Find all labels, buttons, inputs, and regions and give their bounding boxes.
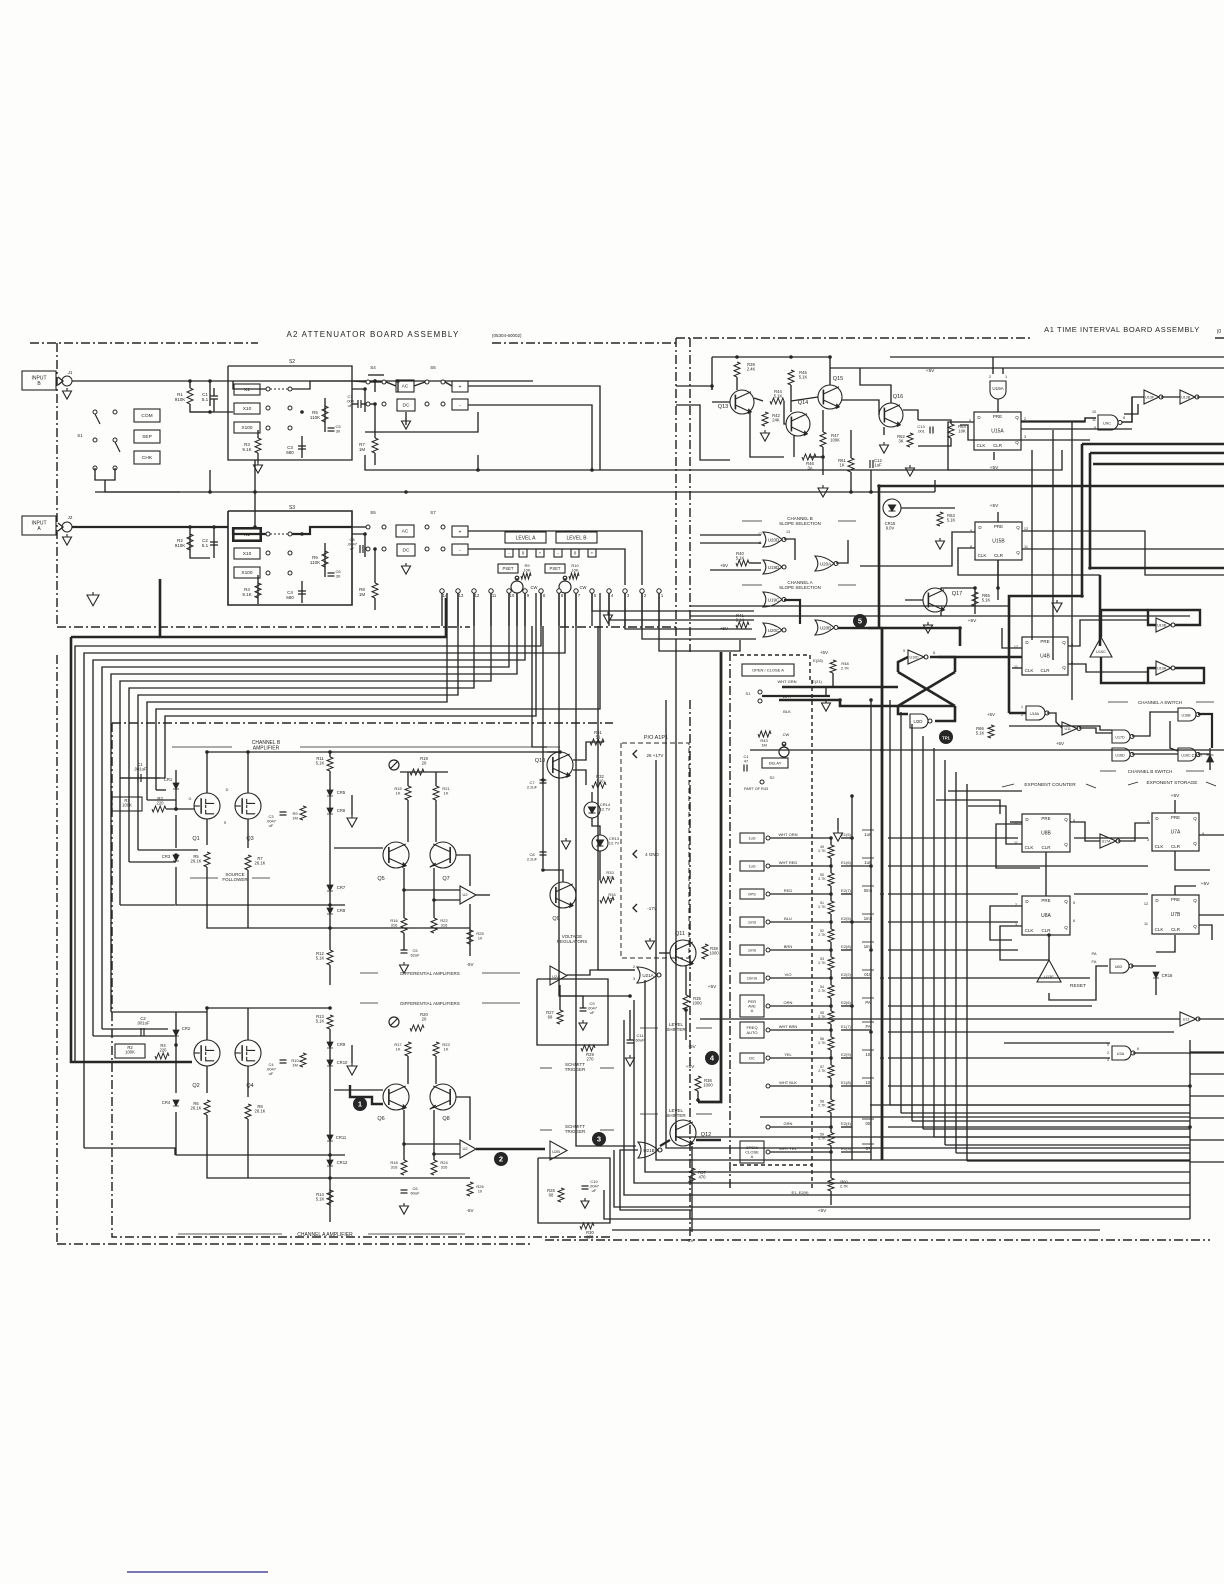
fan into amp e	[129, 861, 176, 863]
gate U3A	[1112, 1046, 1135, 1060]
transistor Q8	[430, 1084, 456, 1110]
switch contact row E1(8)	[766, 1084, 770, 1088]
U21B loop	[620, 1150, 692, 1210]
C11 stub	[629, 1010, 631, 1040]
U15B pre stub	[997, 512, 999, 522]
svg-text:8: 8	[1123, 416, 1125, 420]
resistor R22 316	[431, 918, 437, 933]
row wire E2(8)	[770, 949, 831, 951]
U19D input wire b	[710, 569, 761, 571]
resistor R5	[322, 406, 328, 422]
diode string wire2	[329, 771, 331, 790]
row wire E2(7)	[770, 893, 831, 895]
svg-text:10mS: 10mS	[747, 975, 758, 980]
Q15 wires	[829, 357, 831, 385]
row signal PA right	[888, 1005, 1092, 1007]
svg-text:R16316: R16316	[390, 918, 398, 928]
svg-text:U13: U13	[1183, 1018, 1190, 1022]
inverter U11	[1062, 722, 1081, 735]
U10C stub	[1101, 610, 1148, 637]
junction dot 8	[404, 490, 408, 494]
A1 vertical bus elbow 6	[956, 1152, 1190, 1154]
long wire TP1 row	[750, 749, 1224, 751]
row wire to bus E1(7)	[841, 1029, 871, 1031]
resistor R62 3K	[907, 433, 913, 447]
connector label INPUT A	[22, 516, 56, 535]
diode CR4	[173, 1100, 179, 1106]
svg-text:U7A: U7A	[1171, 830, 1181, 836]
Q4 drain up	[247, 1008, 249, 1040]
right edge stub 4	[1190, 1139, 1224, 1141]
svg-text:+5V: +5V	[990, 503, 999, 509]
ladder wire 7	[830, 1030, 832, 1037]
S3 right contact y573	[288, 571, 292, 575]
svg-text:PRE: PRE	[994, 524, 1003, 529]
overline for PA	[862, 997, 874, 999]
svg-text:R30270: R30270	[586, 1230, 594, 1240]
junction dot 19	[328, 903, 332, 907]
CR1 CR3 vertical	[175, 815, 177, 848]
level shifter2 rule2	[696, 1113, 712, 1115]
right edge stub 2	[1190, 1095, 1224, 1097]
row wire to bus E2(4)	[841, 1126, 852, 1128]
svg-text:WHT BLK: WHT BLK	[779, 1080, 797, 1085]
svg-text:1uS: 1uS	[748, 863, 755, 868]
bottom right vertical bus	[1189, 1040, 1191, 1219]
resistor R3	[255, 438, 261, 453]
wire terminal 2 to slope	[642, 593, 756, 639]
S2 left contact y389	[266, 387, 270, 391]
svg-text:R71M: R71M	[359, 442, 366, 452]
opamp U2 channel B	[460, 886, 476, 904]
S2 left contact y408	[266, 406, 270, 410]
svg-text:U8B: U8B	[1041, 831, 1051, 837]
gate U20C	[763, 623, 786, 637]
thin route A1 mid a	[690, 605, 1009, 607]
svg-text:1mS: 1mS	[748, 919, 757, 924]
svg-text:CR9: CR9	[337, 1042, 346, 1047]
svg-text:Q: Q	[1062, 640, 1066, 645]
junction dot 7	[253, 490, 257, 494]
S6 out	[445, 382, 452, 386]
drop wire a	[997, 560, 999, 588]
row signal 0S right	[888, 1126, 1190, 1128]
svg-text:+: +	[459, 529, 462, 535]
U10B loop thick	[1148, 610, 1200, 625]
Q8 emitter down	[433, 1110, 435, 1160]
resistor R36 1000	[695, 1076, 701, 1091]
svg-text:DC: DC	[749, 1055, 755, 1060]
wire S1 branch down	[209, 381, 211, 406]
svg-text:S: S	[224, 821, 227, 825]
U4B out loop b	[1068, 664, 1148, 672]
resistor R32 510	[592, 782, 606, 788]
resistor R37 470	[689, 1168, 695, 1183]
U16D out wire	[1132, 753, 1178, 755]
fan into amp j	[84, 1148, 175, 1155]
S3 left contact y534	[266, 532, 270, 536]
S6 contact bot x427	[425, 402, 429, 406]
Q13 base feed	[712, 401, 730, 403]
resistor R63 5.1K	[937, 512, 943, 526]
thick route U15B D	[1022, 531, 1224, 575]
U15B loop wire b	[958, 548, 1100, 575]
CR16 down	[1155, 978, 1157, 995]
wire R35 bottom	[685, 1010, 687, 1040]
wire J2 to S3 thick	[72, 526, 228, 528]
svg-text:SOURCEFOLLOWER: SOURCEFOLLOWER	[222, 872, 248, 882]
U16C out wire	[1198, 748, 1210, 754]
svg-text:5: 5	[858, 617, 862, 626]
gate U20D	[763, 532, 786, 547]
resistor R19	[410, 769, 424, 775]
diode CR5	[327, 790, 333, 796]
S3 right contact y553	[288, 551, 292, 555]
svg-text:WHT GRN: WHT GRN	[777, 679, 796, 684]
svg-text:DELAY: DELAY	[769, 760, 782, 765]
ground left of fan	[87, 592, 99, 606]
U15B clr stub	[997, 560, 999, 600]
range box X100	[234, 422, 260, 433]
row junction E2(4)	[829, 1125, 833, 1129]
switch contact row E2(2)	[766, 976, 770, 980]
wire terminal 4 down stub	[608, 593, 610, 626]
S3 left contact y573	[266, 571, 270, 575]
schmitt rule	[540, 1067, 552, 1069]
wire terminal 3 down stub	[624, 593, 626, 626]
svg-text:S1: S1	[77, 433, 83, 438]
switch contact row E2(7)	[766, 892, 770, 896]
drop wire b	[1031, 450, 1033, 640]
flip-flop U8A	[1022, 896, 1070, 935]
numbered ball 2	[494, 1152, 508, 1166]
svg-text:R81M: R81M	[359, 587, 366, 597]
footer blue rule	[127, 1571, 268, 1573]
svg-text:+: +	[539, 551, 542, 556]
junction dot 24	[174, 853, 178, 857]
bottom long wire extra b	[870, 1104, 1190, 1106]
svg-text:CR5: CR5	[337, 790, 346, 795]
Q3 drain up	[247, 752, 249, 793]
inverter U13A2	[1180, 1012, 1200, 1026]
C7 left lead	[352, 403, 358, 405]
overline for 1uS	[862, 829, 874, 831]
numbered ball 1	[353, 1097, 367, 1111]
S4 contact bot x368	[366, 402, 370, 406]
svg-text:WHT RED: WHT RED	[779, 860, 798, 865]
gate U20B	[815, 620, 838, 635]
row signal 0mS right	[888, 893, 1018, 895]
mode select box 10mS row	[740, 973, 764, 983]
column bus b	[870, 700, 872, 1160]
A1 top rail2	[711, 357, 713, 390]
svg-text:U18A: U18A	[1030, 712, 1040, 716]
svg-text:E2(9): E2(9)	[841, 1052, 851, 1057]
wire C1 branch	[397, 381, 399, 392]
resistor R42 24K	[762, 412, 768, 426]
resistor R7 26.1K	[245, 855, 251, 870]
switch contact row E2(6)	[766, 1004, 770, 1008]
Q7 base wire	[456, 855, 470, 886]
resistor R26 10	[467, 1182, 473, 1196]
Q13 collector to R44	[754, 398, 763, 401]
channel B switch rule2	[1186, 770, 1204, 772]
junction dot 51	[1080, 594, 1084, 598]
U19A to U15A	[997, 399, 999, 412]
svg-text:U9C: U9C	[1103, 420, 1111, 425]
channel B switch rule	[1100, 770, 1116, 772]
col wires top	[762, 695, 830, 697]
A1 vertical bus elbow 3	[923, 1128, 1190, 1130]
terminal 3 of attenuator	[623, 589, 627, 593]
row wire E2(6)	[770, 1005, 831, 1007]
coupling box AC	[396, 380, 414, 392]
svg-text:11: 11	[492, 593, 497, 598]
capacitor C1 col	[744, 765, 747, 772]
transistor Q11	[670, 940, 696, 966]
svg-text:YEL: YEL	[784, 1052, 792, 1057]
svg-text:+5V: +5V	[818, 1208, 827, 1214]
gate U19D	[763, 560, 786, 574]
svg-text:CR4: CR4	[162, 1100, 171, 1105]
svg-text:E1, E2(9): E1, E2(9)	[792, 1190, 810, 1195]
svg-text:(0: (0	[1217, 329, 1222, 335]
resistor R55 2.7K	[828, 1011, 834, 1024]
ground below C5	[400, 962, 409, 973]
J2 arrow	[58, 523, 63, 531]
U9C out long	[1124, 404, 1138, 414]
svg-text:BLU: BLU	[784, 916, 792, 921]
diode string wire5	[329, 891, 331, 908]
S3 left contact y553	[266, 551, 270, 555]
svg-text:3: 3	[1024, 435, 1026, 439]
row junction E1(3)	[829, 1150, 833, 1154]
U13A out wire	[1198, 1018, 1224, 1020]
svg-text:6: 6	[1073, 919, 1075, 923]
resistor R18 316	[401, 1160, 407, 1175]
exp counter bracket	[1002, 784, 1014, 787]
R3 top lead	[257, 430, 259, 438]
row wire to bus E2(8)	[841, 949, 852, 951]
diode CR10	[327, 1060, 333, 1066]
resistor R65 5.1K	[972, 592, 978, 606]
S1 wiper col1	[95, 414, 100, 424]
junction dot 52	[1088, 566, 1092, 570]
svg-text:12: 12	[475, 593, 480, 598]
capacitor C4 channel A	[280, 1060, 287, 1063]
svg-text:A2 ATTENUATOR BOARD ASSEMBLY: A2 ATTENUATOR BOARD ASSEMBLY	[286, 330, 459, 339]
U16B out thick	[1198, 714, 1212, 748]
exp storage bracket	[1128, 782, 1138, 785]
ladder wire 6b	[830, 1024, 832, 1030]
R6 leads	[324, 543, 326, 577]
svg-text:CW: CW	[783, 732, 790, 737]
junction J2 S1 branch	[253, 525, 257, 529]
U7B Q wire	[1199, 914, 1224, 916]
wire terminal 12 route	[129, 593, 474, 862]
resistor R38 1000	[702, 944, 708, 959]
svg-text:VIO: VIO	[785, 972, 792, 977]
S2 to R5 node	[352, 389, 365, 412]
row wire E2(9)	[770, 1057, 831, 1059]
U21B to Q12 thick	[660, 1140, 670, 1146]
wire minus A right	[468, 549, 625, 585]
transistor Q16	[879, 403, 903, 427]
bottom bus wire 4	[634, 1000, 1190, 1183]
resistor R5 26.1K	[204, 852, 210, 867]
svg-text:SCHMITTTRIGGER: SCHMITTTRIGGER	[565, 1124, 586, 1134]
resistor R31 51	[590, 739, 604, 745]
diode CR7	[327, 885, 333, 891]
terminal 7 of attenuator	[574, 589, 578, 593]
svg-text:3: 3	[633, 977, 635, 981]
inverter U10C	[1090, 637, 1112, 657]
U13F to U13B	[1161, 396, 1180, 398]
svg-text:E2(8): E2(8)	[841, 944, 851, 949]
S5 contact bot x384	[382, 547, 386, 551]
overline for 0mS	[862, 885, 874, 887]
fan into amp f	[138, 849, 198, 851]
regulator wires c	[573, 770, 586, 785]
wire terminal 3 to slope	[625, 593, 752, 629]
R6 R8 bottom	[207, 1115, 470, 1178]
svg-text:U10C: U10C	[1096, 650, 1106, 654]
junction dot 23	[174, 807, 178, 811]
transistor Q10	[547, 752, 573, 778]
ground below Q16	[880, 442, 889, 453]
svg-text:-5V: -5V	[466, 962, 473, 967]
svg-text:2: 2	[499, 1155, 503, 1164]
svg-text:CR7: CR7	[337, 885, 346, 890]
svg-text:4 GND: 4 GND	[645, 852, 660, 857]
fan into amp i	[120, 777, 165, 779]
svg-text:R392.4K: R392.4K	[747, 362, 756, 372]
C2 leads	[213, 527, 215, 558]
svg-text:J2: J2	[68, 515, 73, 520]
resistor R48 2.7K	[830, 660, 836, 673]
resistor R14 5.1K	[327, 1190, 333, 1205]
link minus rail	[591, 412, 593, 470]
svg-text:R125.1K: R125.1K	[316, 951, 325, 961]
A1 top rail	[712, 356, 830, 358]
S6 contact top x443	[441, 380, 445, 384]
svg-text:Q17: Q17	[952, 591, 962, 597]
resistor R29 270	[581, 1045, 595, 1051]
svg-text:PRE: PRE	[1040, 639, 1049, 644]
svg-text:CR8: CR8	[337, 908, 346, 913]
junction dot 50	[877, 484, 881, 488]
junction dot 47	[880, 1056, 884, 1060]
U19A feed wire b	[1002, 368, 1004, 374]
S4 contact top x384	[382, 380, 386, 384]
J1 arrow	[58, 377, 63, 385]
ladder wire 1b	[830, 886, 832, 894]
wire terminal 9 route	[93, 593, 525, 1036]
svg-text:R33510: R33510	[606, 870, 614, 880]
thick route right bus	[698, 652, 721, 1102]
resistor R44 5.1K	[770, 398, 784, 404]
A1 frame top left segment	[676, 337, 1030, 339]
U8A clk wire	[1000, 926, 1049, 960]
Q14 emitter down	[793, 435, 795, 457]
svg-text:Q6: Q6	[377, 1116, 384, 1122]
svg-text:Q8: Q8	[442, 1116, 449, 1122]
fan into amp a	[93, 1035, 176, 1037]
svg-text:Q: Q	[1015, 440, 1019, 445]
capacitor C9	[580, 1008, 587, 1011]
S2 right contact y428	[288, 426, 292, 430]
svg-text:12: 12	[758, 532, 762, 536]
svg-text:CLK: CLK	[1155, 844, 1164, 849]
svg-text:D: D	[226, 788, 229, 792]
U18A out wire	[1047, 713, 1062, 728]
wire terminal 1 to slope	[659, 593, 740, 651]
coupling box AC channel A	[396, 525, 414, 537]
svg-text:CHANNEL A SWITCH: CHANNEL A SWITCH	[1138, 700, 1182, 705]
thick route E	[1099, 575, 1102, 646]
resistor R57 2.7K	[828, 1065, 834, 1078]
gate U19C	[763, 592, 786, 607]
junction dot 20	[328, 926, 332, 930]
exp storage bracket2	[1206, 782, 1216, 786]
svg-text:5: 5	[1073, 901, 1075, 905]
U15A D wire	[1021, 418, 1096, 422]
svg-text:Q: Q	[1016, 525, 1020, 530]
ground below J1	[63, 388, 72, 399]
range box X10 channel A	[234, 548, 260, 559]
R8 bottom lead	[374, 598, 376, 610]
exp region link a	[948, 790, 1022, 792]
A2 frame top right segment	[492, 342, 676, 344]
R61 hang wires	[850, 430, 852, 458]
capacitor C1 channel B	[138, 774, 141, 782]
ground wire X area	[825, 687, 827, 696]
A2 frame bottom attenuator right part	[560, 626, 676, 628]
channel A switch rule	[1108, 701, 1128, 703]
junction dot 40	[869, 864, 873, 868]
numbered ball 5	[853, 614, 867, 628]
svg-text:C13.001: C13.001	[917, 424, 926, 434]
svg-text:1S: 1S	[865, 1052, 870, 1057]
capacitor C3 channel B	[280, 812, 287, 815]
diode CR3	[173, 855, 179, 861]
CR17 up wire	[1209, 762, 1211, 770]
junction dot 29	[684, 1008, 688, 1012]
diode CR1	[173, 783, 179, 789]
svg-text:EXPONENT COUNTER: EXPONENT COUNTER	[1024, 782, 1076, 788]
resistor R59 2.7K	[828, 1133, 834, 1146]
S2 right contact y389	[288, 387, 292, 391]
switch contact row E1(6)	[766, 864, 770, 868]
wire middle drop C8	[542, 626, 544, 868]
resistor R47 100K	[820, 432, 826, 447]
transistor Q6	[383, 1084, 409, 1110]
wire terminal 7 long drop	[576, 593, 636, 1146]
schmitt1 wires2	[560, 996, 583, 1008]
svg-text:CLR: CLR	[1171, 844, 1181, 849]
level shifter rule	[640, 1027, 658, 1029]
opamp A input wire a	[404, 1143, 460, 1145]
ladder wire 0b	[830, 858, 832, 866]
U7A Q wire	[1199, 834, 1224, 836]
thick Q6 base wire	[350, 1085, 383, 1104]
overline for 1mS	[862, 941, 874, 943]
svg-text:Q: Q	[1015, 415, 1019, 420]
bottom bus wire 0	[676, 640, 1190, 1137]
capacitor C3	[298, 446, 306, 449]
svg-text:Q: Q	[1193, 816, 1197, 821]
U3A input wire b	[1004, 1057, 1110, 1059]
